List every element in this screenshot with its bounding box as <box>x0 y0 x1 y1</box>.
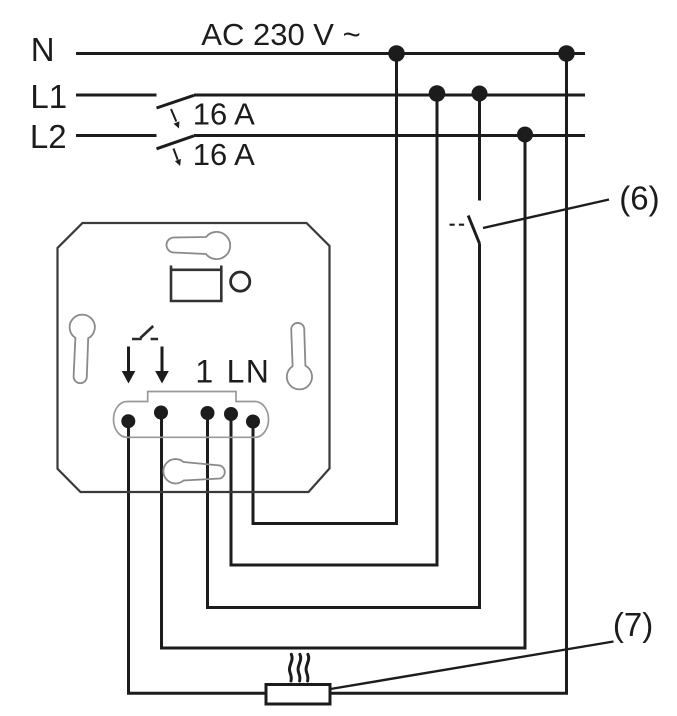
heat wave 2 <box>298 654 301 681</box>
component box <box>171 266 221 302</box>
svg-text:L1: L1 <box>30 78 67 115</box>
wire L1 dot to S6 <box>478 95 481 201</box>
heat wave 3 <box>306 654 309 681</box>
svg-text:16 A: 16 A <box>193 137 255 172</box>
output arrow 1 <box>122 347 136 384</box>
svg-text:(7): (7) <box>613 606 653 643</box>
junction dot N-a <box>388 45 405 62</box>
heater label line (7) <box>331 642 614 690</box>
wire N line <box>76 52 585 55</box>
svg-text:L2: L2 <box>30 118 67 155</box>
S6 actuator dashed link <box>450 224 468 226</box>
junction dot N-b <box>558 45 575 62</box>
terminal dot 5 <box>246 415 260 429</box>
breaker F2 blade and trip arrow <box>157 136 195 166</box>
switch S6 blade <box>468 216 479 244</box>
svg-text:1: 1 <box>195 354 213 390</box>
svg-text:AC 230 V ~: AC 230 V ~ <box>201 17 360 52</box>
junction dot L1-b <box>472 86 488 102</box>
terminal dot 4 <box>224 407 238 421</box>
wire L2 right segment <box>194 134 585 137</box>
device mounting frame <box>58 223 330 492</box>
heat wave 1 <box>289 654 292 681</box>
wire terminal arrow1 to heater <box>129 421 267 693</box>
wire L2 left segment <box>76 134 157 137</box>
wire terminal N to N line <box>253 54 397 524</box>
heater R (7) <box>266 685 330 705</box>
terminal dot 3 <box>201 406 215 420</box>
slot right keyhole <box>287 323 312 389</box>
indicator circle <box>231 272 250 291</box>
slot left keyhole <box>70 315 95 384</box>
svg-text:N: N <box>246 354 269 390</box>
svg-text:16 A: 16 A <box>193 97 255 132</box>
svg-text:N: N <box>31 31 55 68</box>
wire terminal 1 to switch S6 <box>208 244 480 608</box>
S6 label line <box>483 200 609 229</box>
output arrow 2 <box>155 347 169 384</box>
wire terminal 2 to L2 line <box>162 136 526 649</box>
relay contact symbol <box>132 326 158 339</box>
terminal block <box>114 392 269 438</box>
terminal dot 1 <box>121 414 135 428</box>
svg-text:L: L <box>227 354 245 390</box>
wire terminal L to L1 line <box>231 95 437 565</box>
wire L1 left segment <box>76 94 157 97</box>
svg-text:(6): (6) <box>619 180 659 217</box>
terminal dot 2 <box>154 406 168 420</box>
slot top peanut <box>167 232 231 259</box>
junction dot L2-a <box>517 127 533 143</box>
junction dot L1-a <box>429 85 446 102</box>
breaker F1 blade and trip arrow <box>157 95 195 128</box>
slot bottom peanut <box>163 459 224 483</box>
wire L1 right segment <box>194 94 585 97</box>
wire heater to N line <box>330 54 567 694</box>
